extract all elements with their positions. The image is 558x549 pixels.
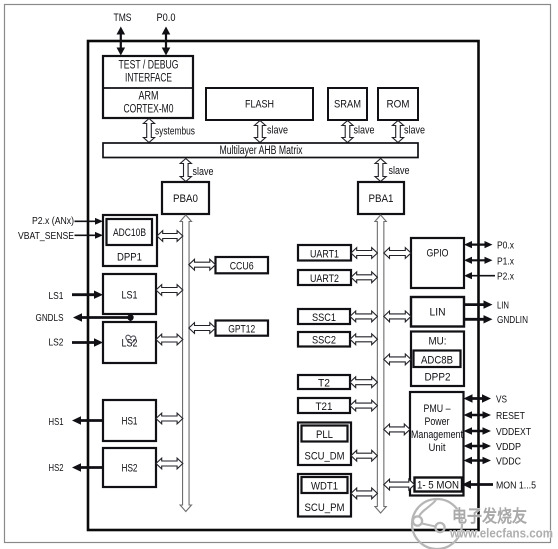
wire P0.x arrow [464,241,493,248]
wire SCU_PM-bus arrow [351,488,377,499]
svg-text:LS2: LS2 [49,337,64,349]
wire P2.x arrow [464,272,495,279]
svg-text:PBA0: PBA0 [173,193,198,205]
block PBA0 [162,182,209,214]
block LS2 [103,322,156,363]
wire PBA0 slave arrow [180,159,191,182]
block ROM [378,88,418,120]
bus PBA0 vertical [180,215,191,512]
block SRAM [328,88,367,120]
svg-text:Management: Management [411,429,463,441]
wire LIN output arrow [464,300,493,308]
svg-text:SCU_DM: SCU_DM [305,451,345,463]
wire P1.x arrow [464,257,493,264]
svg-text:T2: T2 [318,377,330,389]
block HS1 [103,400,156,441]
svg-text:SSC1: SSC1 [312,312,336,324]
svg-text:TMS: TMS [114,12,132,24]
svg-text:Unit: Unit [429,442,446,454]
svg-text:slave: slave [193,166,214,178]
bus PBA1 vertical [375,215,386,513]
wire systembus arrow [143,119,154,143]
block UART2 [298,270,351,285]
svg-text:slave: slave [404,125,425,137]
block FLASH [206,88,313,120]
svg-text:VDDP: VDDP [496,441,521,453]
svg-text:HS2: HS2 [122,463,138,475]
svg-text:P1.x: P1.x [497,255,515,267]
svg-text:VBAT_SENSE: VBAT_SENSE [18,230,74,242]
svg-text:VDDC: VDDC [496,456,521,468]
block HS2 [103,448,156,487]
svg-text:P0.x: P0.x [497,240,515,252]
block 1-5 MON [415,478,463,492]
wire PBA1 slave arrow [375,159,386,182]
block LIN [411,297,464,327]
block TEST/DEBUG INTERFACE + ARM CORTEX-M0 [103,56,193,118]
wire FLASH slave arrow [254,121,265,143]
svg-text:DPP2: DPP2 [425,372,451,384]
svg-text:www.elecfans.com: www.elecfans.com [449,527,553,541]
wire SSC2-bus arrow [350,334,377,345]
wire GNDLIN output arrow [464,315,493,323]
watermark heart artifact over LS2 [126,335,136,343]
wire RESET arrow [464,411,492,419]
svg-text:RESET: RESET [496,410,525,422]
block PBA1 [358,182,404,214]
svg-text:UART1: UART1 [310,248,339,260]
svg-text:slave: slave [354,125,375,137]
block GPT12 [216,321,269,336]
wire ROM slave arrow [392,121,403,143]
wire VDDEXT arrow [464,427,492,435]
wire SCU_DM-bus arrow [351,450,377,461]
wire ADC10B-bus arrow [157,231,183,242]
block CCU6 [216,257,269,273]
block Multilayer AHB Matrix [103,143,418,158]
svg-text:PLL: PLL [316,429,333,441]
svg-text:HS1: HS1 [49,416,64,428]
wire P2.x(ANx) arrow [75,218,104,225]
svg-text:VS: VS [496,394,507,406]
svg-text:HS1: HS1 [122,416,138,428]
svg-text:Power: Power [425,416,450,428]
svg-text:INTERFACE: INTERFACE [125,73,172,85]
svg-text:T21: T21 [316,401,333,413]
svg-text:LS1: LS1 [49,290,64,302]
svg-text:ADC10B: ADC10B [113,227,146,239]
block GPIO [411,238,464,288]
wire VDDP arrow [464,442,492,450]
svg-text:FLASH: FLASH [245,99,274,111]
svg-text:P2.x: P2.x [497,271,515,283]
wire bus-CCU6 arrow [189,259,216,270]
wire T21-bus arrow [350,400,377,411]
svg-text:WDT1: WDT1 [311,481,338,493]
block LS1 [103,274,156,314]
block SSC1 [298,309,350,324]
svg-text:P2.x (ANx): P2.x (ANx) [32,215,74,227]
wire UART2-bus arrow [351,272,377,283]
svg-text:TEST / DEBUG: TEST / DEBUG [119,60,179,72]
svg-text:GPIO: GPIO [427,248,449,260]
wire VS arrow [464,394,492,402]
svg-text:ADC8B: ADC8B [421,355,453,367]
block SSC2 [298,332,350,347]
svg-text:PMU –: PMU – [424,403,452,415]
wire UART1-bus arrow [351,248,377,259]
svg-text:PBA1: PBA1 [369,193,394,205]
block UART1 [298,245,351,261]
svg-text:systembus: systembus [155,126,195,138]
svg-text:HS2: HS2 [49,462,64,474]
svg-text:LIN: LIN [497,300,509,312]
svg-text:MON 1...5: MON 1...5 [496,480,536,492]
block PMU Power Management Unit [410,392,464,496]
wire HS2-bus arrow [156,458,183,469]
wire VDDC arrow [464,457,492,465]
chip boundary rectangle [88,41,479,530]
wire MON input arrow [462,480,493,488]
wire bus-GPIO arrow [384,248,411,259]
svg-text:Multilayer AHB Matrix: Multilayer AHB Matrix [220,145,303,157]
svg-text:DPP1: DPP1 [117,252,142,264]
svg-text:SCU_PM: SCU_PM [305,502,345,514]
wire LS2 input arrow [72,338,103,346]
wire bus-1-5MON arrow [384,479,415,490]
block SCU_PM with WDT1 [298,474,351,517]
svg-text:GPT12: GPT12 [228,324,255,336]
wire T2-bus arrow [350,377,377,388]
svg-text:GNDLS: GNDLS [36,312,64,324]
svg-text:LS1: LS1 [122,290,138,302]
wire SRAM slave arrow [342,121,353,143]
wire bus-ADC8B arrow [384,354,411,365]
wire bus-LIN arrow [384,311,411,322]
junction dot GNDLS [127,314,133,320]
wire VBAT_SENSE arrow [75,232,104,239]
svg-text:CCU6: CCU6 [230,261,254,273]
wire HS1-bus arrow [156,413,183,424]
watermark logo circle [412,499,462,549]
wire HS1 output arrow [72,416,103,424]
wire GNDLS arrow [73,313,131,321]
svg-text:slave: slave [389,165,410,177]
wire TMS arrow [117,27,126,56]
wire LS2-bus arrow [156,334,183,345]
svg-text:VDDEXT: VDDEXT [496,426,531,438]
svg-text:P0.0: P0.0 [157,12,176,24]
block SCU_DM with PLL [298,423,351,466]
wire LS1-bus arrow [156,285,183,296]
wire bus-PMU arrow [384,424,410,435]
svg-text:SSC2: SSC2 [312,335,336,347]
wire LS1 input arrow [72,291,103,299]
wire HS2 output arrow [72,463,103,471]
wire bus-GPT12 arrow [189,323,216,334]
svg-text:1- 5 MON: 1- 5 MON [417,480,459,492]
block MU with ADC8B / DPP2 [411,332,464,387]
svg-text:ROM: ROM [387,99,410,111]
svg-text:LIN: LIN [430,307,446,319]
block T2 [298,375,350,389]
svg-text:ARM: ARM [139,91,159,103]
svg-text:CORTEX-M0: CORTEX-M0 [124,104,174,116]
svg-text:GNDLIN: GNDLIN [497,314,528,326]
svg-text:电子发烧友: 电子发烧友 [452,506,527,526]
block DPP1 with ADC10B [103,215,157,266]
svg-text:MU:: MU: [429,336,447,348]
block T21 [298,398,350,413]
wire P0.0 arrow [162,27,171,56]
svg-text:slave: slave [267,125,288,137]
svg-text:SRAM: SRAM [334,99,361,111]
svg-text:UART2: UART2 [310,273,339,285]
wire SSC1-bus arrow [350,311,377,322]
